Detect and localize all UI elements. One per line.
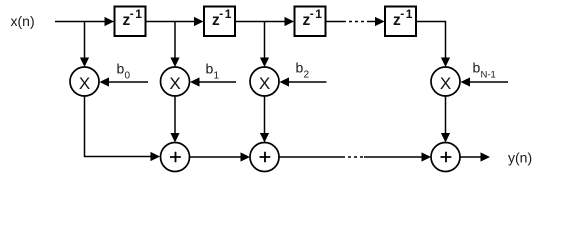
coefficient label b1 — [206, 61, 220, 82]
wire coefficient b1 into M2 — [190, 77, 236, 86]
wire Z3 to Z4 dashed continuation — [326, 17, 385, 26]
svg-text:X: X — [440, 74, 451, 93]
svg-text:b: b — [117, 61, 125, 77]
wire M4 output down into adder A3 — [441, 96, 450, 143]
multiplier M2 — [161, 67, 190, 96]
svg-text:b: b — [296, 60, 304, 76]
svg-text:1: 1 — [214, 71, 220, 82]
delay block Z1 — [115, 7, 146, 37]
svg-text:1: 1 — [225, 7, 232, 21]
delay block Z4 — [385, 7, 416, 37]
wire adder A1 to adder A2 — [190, 152, 251, 161]
svg-text:1: 1 — [135, 7, 142, 21]
wire tap junction 3 down to multiplier M3 — [260, 22, 269, 68]
multiplier M3 — [250, 67, 279, 96]
svg-text:-: - — [400, 7, 404, 21]
svg-text:b: b — [473, 60, 481, 76]
svg-text:y(n): y(n) — [508, 149, 532, 165]
svg-text:1: 1 — [315, 7, 322, 21]
svg-text:x(n): x(n) — [11, 13, 35, 29]
wire coefficient bN-1 into M4 — [461, 77, 509, 86]
wire input x(n) to delay Z1 — [55, 17, 114, 26]
wire M3 output down into adder A2 — [260, 96, 269, 143]
wire Z2 to Z3 — [235, 17, 294, 26]
svg-text:b: b — [206, 61, 214, 77]
delay block Z3 — [295, 7, 326, 37]
wire tap junction 1 down to multiplier M1 — [80, 22, 89, 68]
svg-text:X: X — [259, 74, 270, 93]
wire coefficient b0 into M1 — [100, 77, 149, 86]
svg-text:X: X — [169, 74, 180, 93]
delay block Z2 — [204, 7, 235, 37]
coefficient label b2 — [296, 60, 310, 81]
coefficient label bN-1 — [473, 60, 496, 81]
wire adder A2 to adder A3 dashed continuation — [279, 152, 431, 161]
svg-text:-: - — [130, 7, 134, 21]
wire tap junction 2 down to multiplier M2 — [170, 22, 179, 68]
svg-text:N-1: N-1 — [481, 70, 496, 81]
multiplier M4 — [431, 67, 460, 96]
svg-text:-: - — [219, 7, 223, 21]
svg-text:-: - — [310, 7, 314, 21]
wire Z4 output to multiplier M4 — [417, 22, 451, 68]
svg-text:1: 1 — [406, 7, 413, 21]
wire coefficient b2 into M3 — [280, 77, 327, 86]
svg-text:2: 2 — [304, 70, 310, 81]
adder A3 — [431, 143, 460, 172]
wire M2 output down into adder A1 — [170, 96, 179, 143]
svg-text:X: X — [79, 74, 90, 93]
wire Z1 to Z2 — [146, 17, 204, 26]
multiplier M1 — [70, 67, 99, 96]
svg-text:0: 0 — [125, 71, 131, 82]
adder A2 — [250, 143, 279, 172]
adder A1 — [161, 143, 190, 172]
wire M1 output down and right into adder A1 — [85, 96, 161, 161]
coefficient label b0 — [117, 61, 131, 82]
wire adder A3 to output y(n) — [460, 152, 490, 161]
